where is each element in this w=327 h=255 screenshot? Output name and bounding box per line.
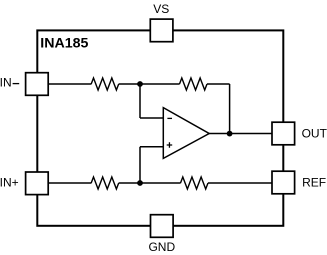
wire IN+ pin to input resistor: [49, 182, 92, 184]
svg-text:IN: IN: [0, 76, 12, 90]
wire IN- pin to input gain resistor: [49, 83, 92, 85]
pin OUT: [272, 122, 327, 145]
svg-text:GND: GND: [148, 240, 175, 254]
node noninverting input junction: [137, 180, 143, 186]
wire REF resistor to REF pin: [208, 182, 272, 184]
wire to op-amp inverting input: [140, 117, 163, 119]
wire noninverting vertical drop to IN+ node: [139, 147, 141, 183]
resistor input gain (IN+ row left): [91, 177, 119, 189]
IC outline INA185 package boundary: [37, 30, 283, 225]
op-amp plus sign: [167, 142, 173, 148]
node output junction: [227, 131, 233, 137]
svg-text:REF: REF: [302, 176, 326, 190]
svg-text:INA185: INA185: [40, 36, 88, 52]
resistor feedback (IN- row right): [180, 78, 208, 90]
wire op-amp output to OUT pin: [209, 133, 272, 135]
wire inverting node vertical drop: [139, 84, 141, 118]
pin GND: [148, 215, 175, 254]
op-amp minus sign: [167, 117, 172, 119]
pin VS: [150, 2, 173, 42]
svg-text:OUT: OUT: [302, 127, 327, 141]
svg-text:VS: VS: [153, 2, 169, 16]
pin REF: [272, 171, 326, 194]
op-amp U1: [163, 108, 209, 159]
pin IN+: [0, 172, 48, 195]
svg-text:IN+: IN+: [0, 175, 19, 189]
node inverting input junction: [137, 81, 143, 87]
resistor REF (IN+ row right): [181, 177, 209, 189]
wire feedback resistor to corner: [207, 83, 230, 85]
pin IN-: [0, 73, 48, 96]
wire feedback vertical drop to output node: [229, 84, 231, 134]
wire noninverting node to REF resistor: [140, 182, 181, 184]
wire resistor to noninverting node: [119, 182, 140, 184]
resistor input gain (IN- row left): [91, 78, 119, 90]
wire op-amp noninverting input horizontal: [140, 146, 163, 148]
wire inverting node to feedback resistor: [140, 83, 180, 85]
wire resistor to inverting node: [119, 83, 140, 85]
